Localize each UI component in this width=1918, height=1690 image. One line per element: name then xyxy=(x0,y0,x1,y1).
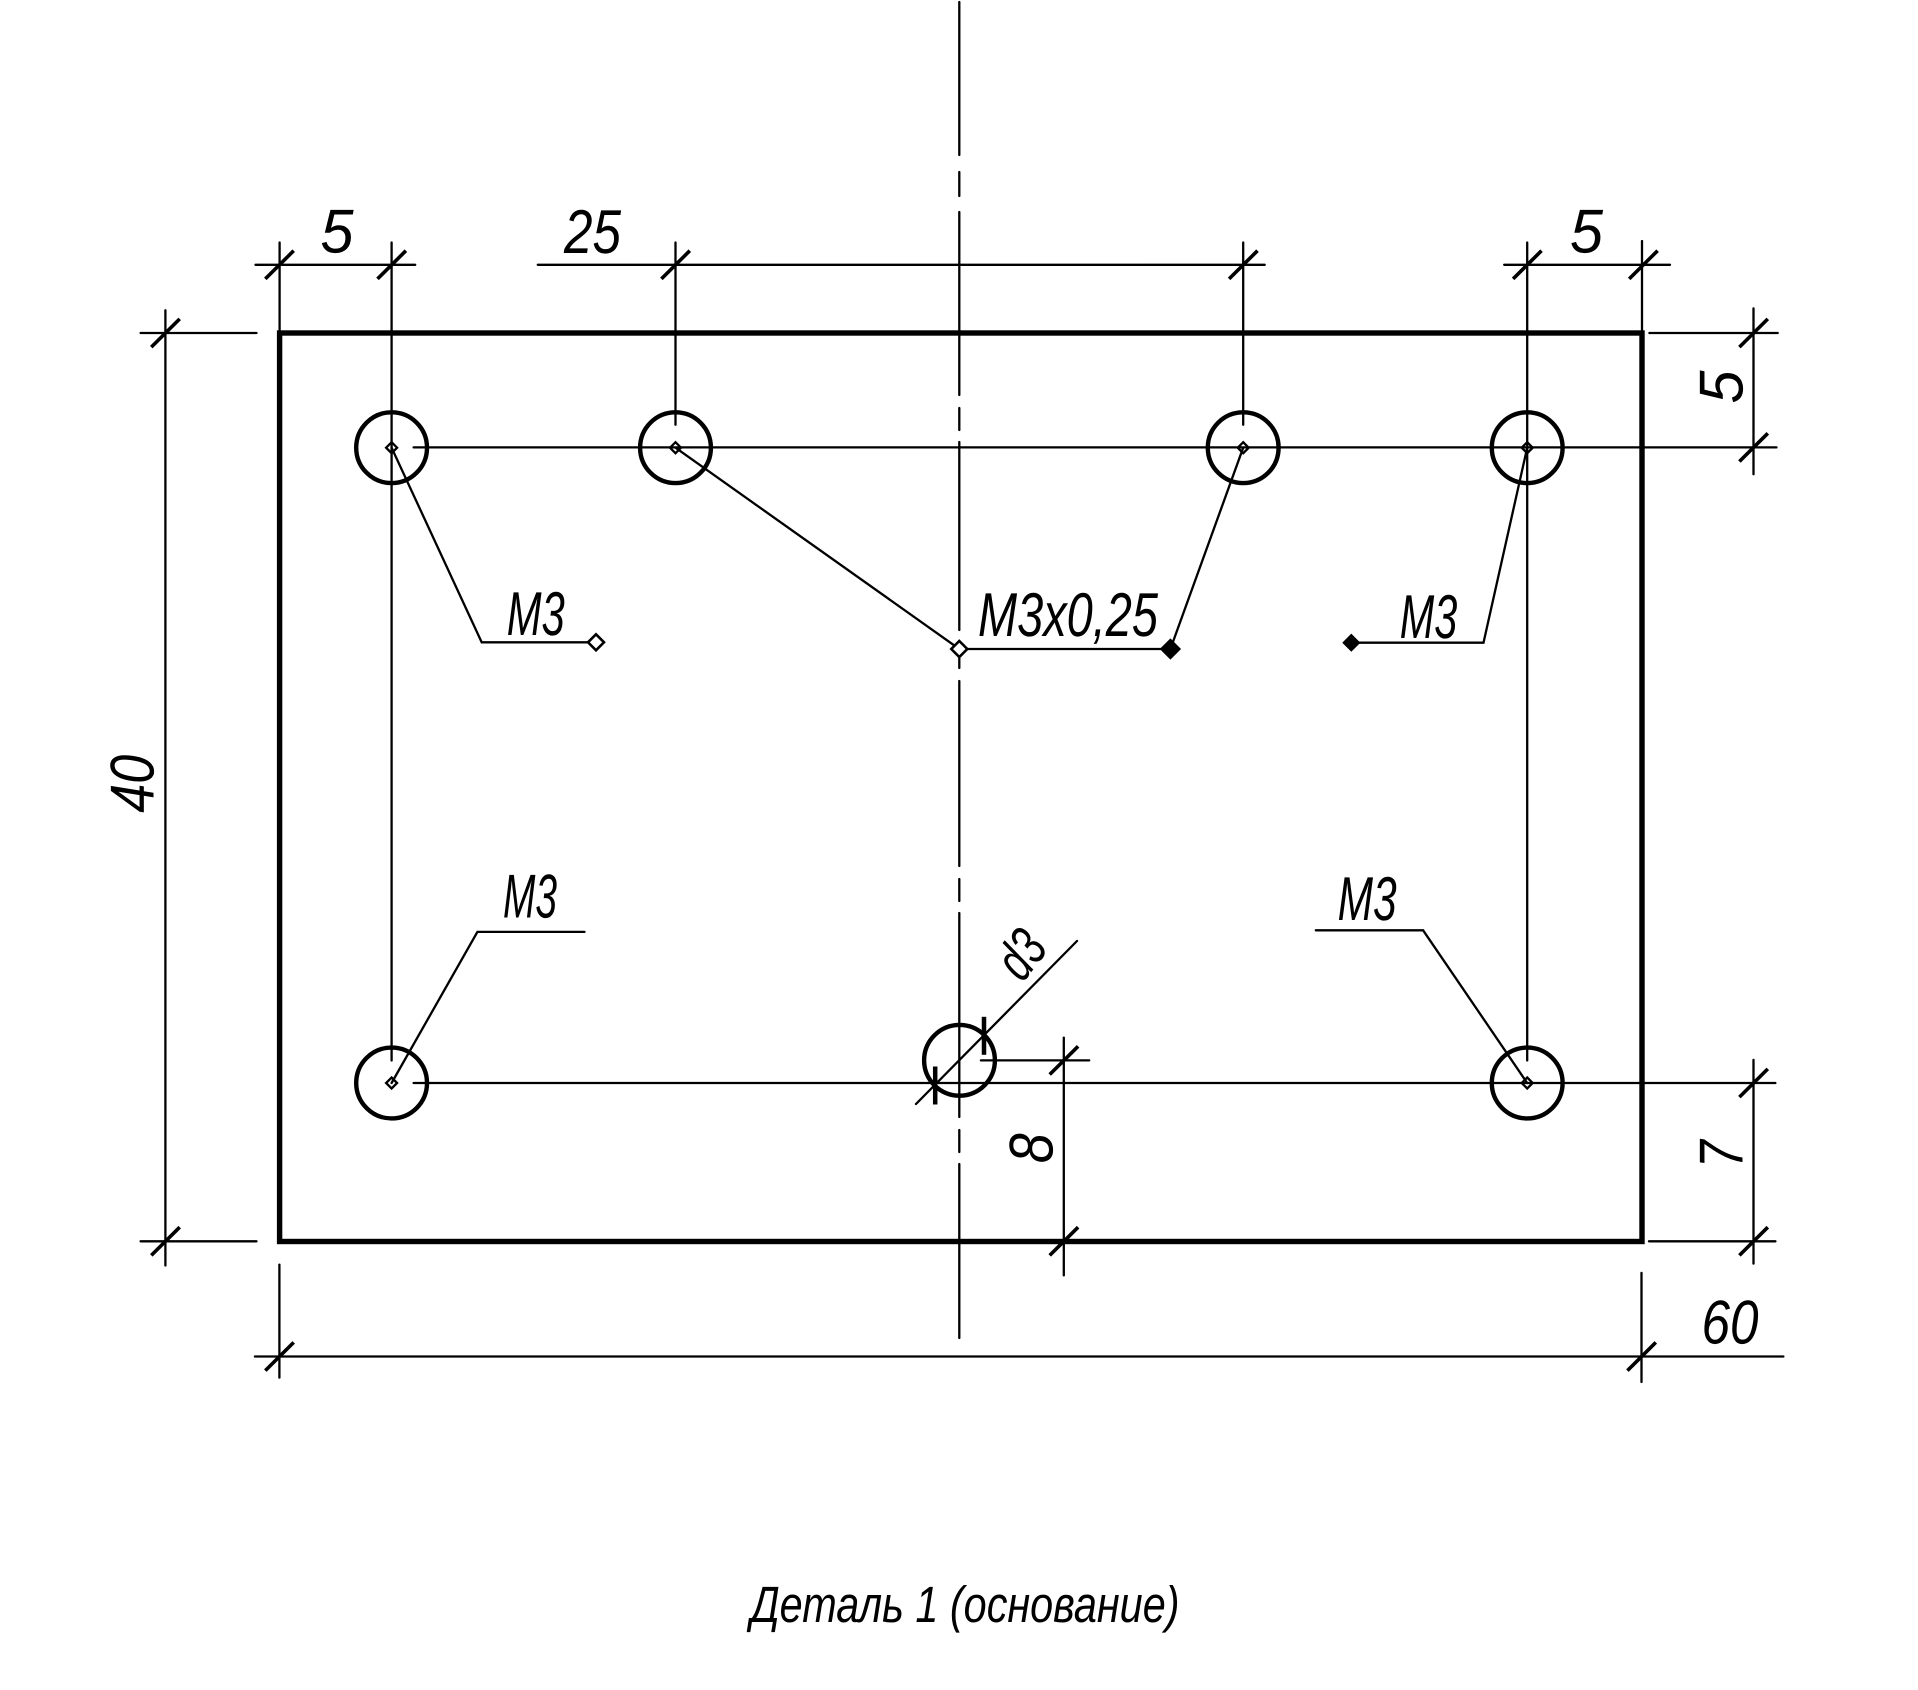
extension line top-left corner for 40 xyxy=(141,332,257,334)
hole centerline through top row xyxy=(414,446,1777,448)
svg-text:5: 5 xyxy=(1570,198,1603,267)
hole circle 5 (bottom-left M3) xyxy=(356,1048,427,1119)
center point marker hole 5 xyxy=(386,1078,397,1089)
d3 tick upper xyxy=(982,1017,987,1055)
hole circle 4 (top-right M3) xyxy=(1492,412,1563,483)
hollow diamond at left end of shelf xyxy=(951,641,967,657)
leader M3x0,25 branch to hole 3 xyxy=(1170,448,1243,649)
leader M3 bottom-right xyxy=(1316,930,1527,1083)
extension line right of top edge for 5 xyxy=(1649,332,1777,334)
8 dimension line xyxy=(1063,1038,1065,1276)
tick top of 40 dim xyxy=(151,319,179,347)
leader M3x0,25 shelf xyxy=(959,648,1170,650)
leader M3 top-right xyxy=(1351,448,1527,643)
center point marker hole 4 xyxy=(1522,442,1533,453)
leader M3x0,25 branch from hole 2 xyxy=(676,448,960,649)
extension line below bottom-left corner for 60 xyxy=(278,1265,280,1378)
svg-text:5: 5 xyxy=(1688,370,1757,403)
60 dimension line (bottom) xyxy=(255,1355,1784,1357)
svg-text:М3: М3 xyxy=(1400,583,1458,652)
diamond at end of top-left leader xyxy=(588,634,604,650)
diamond at end of top-right leader xyxy=(1343,635,1359,651)
40 dimension line (left) xyxy=(164,310,166,1265)
extension line right from center hole for 8 xyxy=(981,1059,1089,1061)
top dimension line segment (25) xyxy=(538,264,1265,266)
hole centerline through bottom row xyxy=(414,1082,1776,1084)
center point marker hole 2 xyxy=(670,442,681,453)
tick at hole2 / top dim xyxy=(661,251,689,279)
svg-text:М3: М3 xyxy=(1338,865,1397,934)
extension line at x of hole 1/5 xyxy=(390,243,392,1061)
extension line at x of hole 3 xyxy=(1242,243,1244,425)
plate outline (Деталь 1) xyxy=(280,333,1642,1242)
hole circle 3 (M3x0,25) xyxy=(1208,412,1279,483)
tick right of 60 dim xyxy=(1627,1342,1655,1370)
tick bottom of right-5 dim xyxy=(1739,433,1767,461)
hole circle 7 (bottom-right M3) xyxy=(1492,1048,1563,1119)
extension line at x of hole 2 xyxy=(674,243,676,425)
center point marker hole 1 xyxy=(386,442,397,453)
svg-text:5: 5 xyxy=(321,198,354,267)
right 5 dimension line xyxy=(1752,308,1754,474)
svg-text:М3х0,25: М3х0,25 xyxy=(978,581,1158,650)
extension line at x of hole 4/7 xyxy=(1526,243,1528,1061)
filled diamond at right end of shelf xyxy=(1161,639,1180,658)
hole circle 2 (M3x0,25) xyxy=(640,412,711,483)
tick top of 7 dim xyxy=(1739,1069,1767,1097)
tick at hole1 / top dim xyxy=(378,251,406,279)
center point marker hole 7 xyxy=(1522,1078,1533,1089)
svg-text:8: 8 xyxy=(998,1133,1067,1163)
right 7 dimension line xyxy=(1752,1060,1754,1264)
tick left of 60 dim xyxy=(265,1342,293,1370)
tick bottom of 8 dim xyxy=(1050,1227,1078,1255)
extension line right of bottom edge for 7 xyxy=(1649,1240,1775,1242)
leader M3 bottom-left xyxy=(392,932,585,1083)
svg-text:Деталь 1 (основание): Деталь 1 (основание) xyxy=(746,1576,1179,1633)
vertical centerline (dash-dot) of plate xyxy=(958,2,960,1338)
extension line above left edge xyxy=(278,243,280,331)
center point marker hole 3 xyxy=(1238,442,1249,453)
tick bottom of 7 dim xyxy=(1739,1227,1767,1255)
hole circle 6 (center d3) xyxy=(924,1025,995,1096)
tick bottom of 40 dim xyxy=(151,1227,179,1255)
extension line above right edge xyxy=(1641,241,1643,330)
svg-text:25: 25 xyxy=(563,198,621,267)
tick top of 8 dim xyxy=(1050,1046,1078,1074)
svg-text:40: 40 xyxy=(99,755,168,813)
extension line bottom-left corner for 40 xyxy=(141,1240,257,1242)
extension line below bottom-right corner for 60 xyxy=(1640,1273,1642,1382)
svg-text:60: 60 xyxy=(1702,1288,1759,1357)
tick at hole3 / top dim xyxy=(1229,251,1257,279)
hole circle 1 (top-left M3) xyxy=(356,412,427,483)
svg-text:М3: М3 xyxy=(507,580,565,649)
top dimension line segment (right 5) xyxy=(1504,264,1670,266)
tick at hole4 / top dim xyxy=(1513,251,1541,279)
svg-text:М3: М3 xyxy=(503,863,557,932)
top dimension line segment (5) xyxy=(256,264,416,266)
tick at left edge / top dim xyxy=(265,251,293,279)
leader M3 top-left xyxy=(392,448,595,643)
svg-text:7: 7 xyxy=(1688,1138,1757,1168)
tick at right edge / top dim xyxy=(1629,251,1657,279)
d3 leader diagonal xyxy=(916,941,1077,1104)
d3 tick lower xyxy=(933,1067,938,1105)
tick top of right-5 dim xyxy=(1739,319,1767,347)
